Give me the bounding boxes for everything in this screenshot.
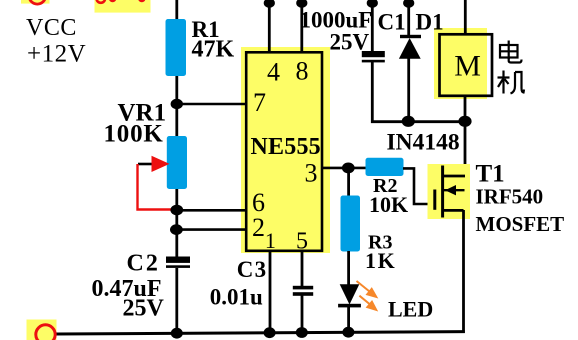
node C (pin 2) <box>170 224 183 235</box>
svg-text:+12V: +12V <box>27 41 86 68</box>
IC U1 NE555 highlight <box>241 47 330 253</box>
svg-text:8: 8 <box>296 57 309 86</box>
label 1000uF 25V <box>300 8 373 55</box>
svg-text:VCC: VCC <box>26 15 77 41</box>
wire pin 4 to VCC <box>268 0 271 53</box>
svg-text:1K: 1K <box>365 248 396 273</box>
wire C2 to ground rail <box>175 268 178 334</box>
terminal J1 (VCC input, top-left, cropped) <box>21 0 50 4</box>
svg-text:5: 5 <box>296 228 308 254</box>
capacitor C2 <box>166 257 190 268</box>
svg-text:100K: 100K <box>104 121 164 148</box>
svg-text:10K: 10K <box>369 192 408 217</box>
wire R1 to node A to VR1 <box>175 76 178 137</box>
svg-text:0.01u: 0.01u <box>210 284 263 309</box>
label motor chinese 机 <box>498 71 525 94</box>
wire pin 2 <box>177 228 247 231</box>
motor M highlight <box>434 28 487 99</box>
label C3 0.01u <box>210 257 268 309</box>
label C2 0.47uF 25V <box>92 251 165 322</box>
wire node D down to R3 <box>347 168 350 197</box>
terminal J2 (bottom-left) <box>27 320 57 340</box>
ground rail junction dots <box>171 327 355 339</box>
resistor R3 <box>341 196 361 252</box>
node F (motor bottom / drain) <box>458 116 471 127</box>
wire VCC to motor <box>464 0 467 35</box>
label T1 IRF540 MOSFET <box>476 160 565 236</box>
svg-text:T1: T1 <box>476 160 505 187</box>
svg-text:C3: C3 <box>237 257 268 282</box>
node A (R1 / VR1 / pin7) <box>171 99 183 109</box>
svg-text:C2: C2 <box>127 251 160 277</box>
label R3 1K <box>365 232 396 274</box>
label VR1 100K <box>104 99 167 147</box>
wire T1 source to ground rail <box>462 210 465 333</box>
svg-text:NE555: NE555 <box>251 134 321 160</box>
wire motor to node F to T1 drain <box>464 96 467 190</box>
svg-text:LED: LED <box>388 297 433 322</box>
resistor R1 <box>166 19 187 76</box>
svg-text:M: M <box>454 50 481 83</box>
motor M body <box>440 34 493 96</box>
wire C3 to ground <box>301 295 304 333</box>
svg-text:1: 1 <box>265 228 276 253</box>
svg-text:IN4148: IN4148 <box>387 130 460 156</box>
wire VR1 bottom to C2 <box>175 189 178 258</box>
node E (C1 / D1 rail) <box>402 116 415 127</box>
diode D1 <box>399 35 421 59</box>
cropped red annotation remnant (top) <box>95 0 151 13</box>
wire C1 bottom down and right to node E <box>372 62 465 122</box>
wire pin 8 to VCC <box>300 0 303 53</box>
wire LED to ground <box>347 307 350 333</box>
capacitor C3 <box>293 286 313 296</box>
potentiometer VR1 <box>167 136 187 189</box>
resistor R2 <box>366 158 404 176</box>
label motor chinese 电 <box>500 41 522 63</box>
VR1 wiper arrow <box>138 156 170 172</box>
pin number labels <box>252 57 318 255</box>
LED D2 <box>338 284 361 307</box>
label VCC +12V <box>26 15 86 68</box>
wire D1 anode to node E <box>407 58 410 122</box>
svg-text:4: 4 <box>267 58 280 87</box>
svg-text:47K: 47K <box>192 37 235 63</box>
VR1 wiper wire (red) <box>138 164 175 210</box>
transistor T1 highlight <box>428 164 471 219</box>
diode D1 top wire <box>407 0 410 36</box>
wire pin 6 <box>177 209 247 212</box>
wire pin 1 to ground <box>269 250 272 333</box>
wire R3 to LED <box>347 251 350 285</box>
LED light arrows <box>357 281 379 312</box>
label R2 10K <box>369 175 408 217</box>
svg-text:25V: 25V <box>330 30 370 55</box>
wire VCC stub to R1 <box>175 0 178 21</box>
ground rail <box>56 332 465 334</box>
wire pin 3 to R2 <box>322 167 367 170</box>
wire R2 to gate of T1 <box>403 168 435 204</box>
svg-text:D1: D1 <box>416 10 444 35</box>
wire pin 7 <box>177 103 247 106</box>
svg-text:2: 2 <box>252 213 265 242</box>
capacitor C1 plates <box>362 51 385 62</box>
capacitor C1 (1000uF) top wire <box>371 0 374 52</box>
node D (pin3 / R2 / R3) <box>342 163 355 174</box>
svg-text:IRF540: IRF540 <box>476 185 544 209</box>
svg-text:7: 7 <box>253 88 266 117</box>
node B (wiper / pin 6) <box>170 205 183 216</box>
transistor T1 (N-MOSFET) <box>435 166 465 218</box>
wire pin 5 to C3 <box>301 250 304 287</box>
svg-text:25V: 25V <box>123 296 165 322</box>
label R1 47K <box>192 17 235 63</box>
svg-text:MOSFET: MOSFET <box>476 212 565 236</box>
svg-text:C1: C1 <box>378 10 406 35</box>
svg-text:3: 3 <box>305 159 318 188</box>
IC U1 NE555 body <box>246 52 322 251</box>
